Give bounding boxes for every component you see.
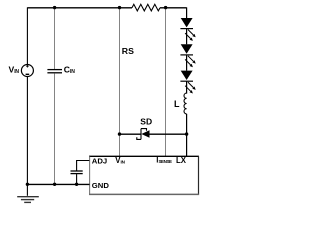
LED D2 [180, 44, 195, 67]
pin label VIN [115, 156, 125, 165]
node RS low side / ISENSE junction [164, 6, 167, 9]
wire top rail right (RS to LED string) [160, 7, 187, 9]
wire ISENSE pin drop (RS low side to pin ISENSE) [165, 7, 167, 156]
wire D2 cathode to D3 anode [186, 55, 188, 71]
capacitor CIN [47, 70, 62, 73]
pin label LX [176, 156, 187, 165]
svg-text:SD: SD [140, 116, 152, 126]
wire ADJ pin to capacitor [77, 161, 90, 171]
label VIN (source) [9, 65, 20, 75]
wire ground rail [27, 183, 89, 185]
wire CIN top lead [54, 7, 56, 69]
wire VIN source top lead [26, 7, 28, 64]
node diode cathode / VIN line junction [118, 132, 121, 135]
ground [17, 184, 39, 202]
pin label ISENSE [156, 156, 172, 165]
LED D3 [180, 71, 195, 94]
wire D3 cathode to inductor [186, 81, 188, 93]
pin label ADJ [92, 156, 107, 165]
diode SD (Schottky) [137, 129, 150, 140]
wire CIN bottom lead [54, 73, 56, 184]
wire diode branch left (cathode to VIN node) [120, 133, 142, 135]
LED D1 [180, 18, 195, 41]
wire inductor to pin LX [186, 114, 188, 156]
resistor RS [132, 4, 160, 11]
node ground / CIN junction [53, 183, 56, 186]
svg-text:ADJ: ADJ [92, 156, 107, 165]
voltage source VIN [21, 65, 33, 77]
label CIN [64, 65, 75, 75]
wire VIN source bottom lead [26, 77, 28, 185]
svg-text:GND: GND [92, 181, 110, 190]
node diode anode / LX line junction [185, 132, 188, 135]
node ground / VIN source junction [26, 183, 29, 186]
op-amp U1 LED driver IC body [89, 156, 199, 194]
label L [174, 99, 180, 109]
wire top rail left (supply node to RS) [27, 7, 132, 9]
node ground / ADJ capacitor junction [75, 183, 78, 186]
inductor L [184, 93, 187, 114]
label SD [140, 116, 152, 126]
svg-text:RS: RS [122, 46, 134, 56]
wire ADJ capacitor bottom lead [76, 174, 78, 184]
wire LED string anode stub [186, 7, 188, 18]
wire D1 cathode to D2 anode [186, 29, 188, 45]
capacitor C ADJ [71, 171, 83, 174]
node supply rail / VIN pin junction [118, 6, 121, 9]
label RS [122, 46, 134, 56]
pin label GND [92, 181, 110, 190]
node supply rail / CIN junction [53, 6, 56, 9]
wire diode branch right (anode to LX node) [150, 133, 187, 135]
wire VIN pin drop (supply to pin VIN) [119, 7, 121, 156]
svg-text:L: L [174, 99, 180, 109]
svg-text:LX: LX [176, 156, 187, 165]
